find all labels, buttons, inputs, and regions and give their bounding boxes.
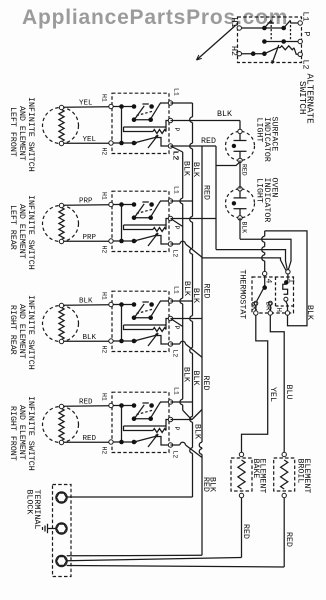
svg-text:RED: RED (201, 137, 216, 146)
svg-text:SWITCH: SWITCH (297, 81, 308, 114)
svg-text:RED: RED (83, 435, 97, 443)
svg-text:YEL: YEL (79, 100, 93, 108)
svg-text:P: P (173, 326, 180, 330)
svg-text:P: P (173, 427, 180, 431)
svg-text:LEFT REAR: LEFT REAR (8, 205, 17, 250)
svg-text:BLK: BLK (182, 367, 191, 382)
svg-text:L2: L2 (172, 451, 179, 459)
svg-text:H2: H2 (101, 346, 108, 354)
svg-text:L1: L1 (173, 186, 180, 194)
svg-text:H1: H1 (101, 192, 108, 200)
svg-text:L2: L2 (172, 250, 179, 258)
svg-text:BLK: BLK (191, 371, 200, 386)
svg-text:H: H (274, 308, 282, 313)
svg-text:L1: L1 (173, 387, 180, 395)
svg-text:INFINITE SWITCH: INFINITE SWITCH (26, 97, 35, 172)
svg-text:RIGHT REAR: RIGHT REAR (8, 305, 17, 355)
svg-text:BLK: BLK (193, 424, 202, 439)
svg-text:H2: H2 (101, 447, 108, 455)
svg-text:L2: L2 (172, 350, 179, 358)
svg-text:BLK: BLK (191, 288, 200, 303)
svg-text:RED: RED (284, 532, 293, 547)
svg-text:LIGHT: LIGHT (255, 118, 264, 143)
svg-text:BLK: BLK (217, 110, 232, 119)
svg-text:BLK: BLK (182, 281, 191, 296)
svg-text:RED: RED (202, 185, 211, 200)
svg-text:INFINITE SWITCH: INFINITE SWITCH (26, 295, 35, 370)
svg-text:BLK: BLK (191, 162, 200, 177)
svg-text:BLK: BLK (83, 334, 97, 342)
svg-text:BLK: BLK (79, 298, 93, 306)
svg-text:L2: L2 (171, 151, 180, 161)
svg-text:P: P (173, 128, 180, 132)
svg-text:AND ELEMENT: AND ELEMENT (17, 304, 26, 359)
svg-text:H1: H1 (101, 393, 108, 401)
svg-text:AND ELEMENT: AND ELEMENT (17, 106, 26, 161)
svg-text:BLK: BLK (208, 477, 217, 492)
svg-text:RED: RED (240, 164, 247, 176)
svg-text:H1: H1 (101, 292, 108, 300)
svg-text:L2: L2 (301, 60, 310, 70)
svg-text:YEL: YEL (83, 136, 97, 144)
svg-text:L1: L1 (173, 286, 180, 294)
svg-text:YEL: YEL (268, 387, 277, 402)
svg-text:RED: RED (79, 399, 93, 407)
svg-text:H2: H2 (229, 46, 238, 56)
svg-text:BLK: BLK (240, 222, 247, 234)
svg-text:LEFT FRONT: LEFT FRONT (8, 107, 17, 157)
svg-text:H2: H2 (101, 148, 108, 156)
svg-text:RED: RED (201, 376, 210, 391)
svg-text:PRP: PRP (83, 234, 97, 242)
svg-text:ELEMENT: ELEMENT (257, 459, 266, 494)
svg-text:THERMOSTAT: THERMOSTAT (238, 270, 247, 320)
svg-text:L1: L1 (173, 88, 180, 96)
svg-text:H2: H2 (101, 246, 108, 254)
svg-text:INFINITE SWITCH: INFINITE SWITCH (26, 195, 35, 270)
svg-text:ELEMENT: ELEMENT (302, 459, 311, 494)
svg-text:PRP: PRP (79, 198, 93, 206)
svg-text:RIGHT FRONT: RIGHT FRONT (8, 406, 17, 461)
svg-text:RED: RED (202, 284, 211, 299)
svg-text:BLU: BLU (284, 385, 293, 400)
svg-text:BK: BK (249, 302, 257, 312)
svg-text:P: P (301, 32, 310, 37)
svg-text:H1: H1 (229, 18, 238, 28)
svg-text:BLOCK: BLOCK (24, 490, 33, 515)
svg-text:BLK: BLK (305, 305, 314, 320)
svg-text:BR: BR (263, 302, 271, 312)
svg-text:INFINITE SWITCH: INFINITE SWITCH (26, 396, 35, 471)
svg-text:BLK: BLK (182, 161, 191, 176)
svg-text:P: P (173, 226, 180, 230)
svg-text:L1: L1 (301, 12, 310, 22)
svg-text:H1: H1 (101, 94, 108, 102)
svg-text:RED: RED (241, 524, 250, 539)
svg-text:LIGHT: LIGHT (255, 178, 264, 203)
svg-text:AND ELEMENT: AND ELEMENT (17, 405, 26, 460)
svg-text:AND ELEMENT: AND ELEMENT (17, 204, 26, 259)
